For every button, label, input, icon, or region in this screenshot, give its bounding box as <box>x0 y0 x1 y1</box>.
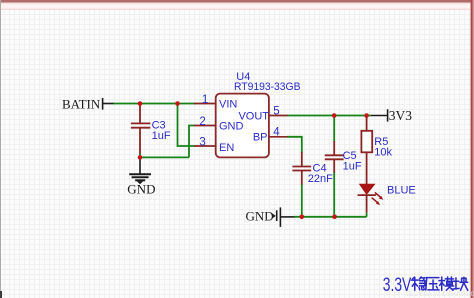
svg-text:VOUT: VOUT <box>238 110 269 122</box>
svg-text:EN: EN <box>219 142 234 154</box>
svg-text:BLUE: BLUE <box>387 185 416 197</box>
svg-text:3V3: 3V3 <box>389 108 412 123</box>
svg-text:2: 2 <box>199 116 205 128</box>
svg-text:3: 3 <box>199 136 205 148</box>
svg-text:5: 5 <box>273 105 279 117</box>
svg-text:1uF: 1uF <box>152 130 171 142</box>
svg-text:1uF: 1uF <box>343 161 362 173</box>
svg-text:RT9193-33GB: RT9193-33GB <box>234 81 301 93</box>
svg-text:BP: BP <box>253 131 268 143</box>
svg-text:GND: GND <box>246 209 274 224</box>
svg-text:GND: GND <box>127 182 155 197</box>
svg-text:1: 1 <box>202 94 208 106</box>
svg-text:4: 4 <box>273 126 280 138</box>
svg-text:22nF: 22nF <box>308 173 333 185</box>
svg-text:BATIN: BATIN <box>62 97 101 112</box>
svg-text:VIN: VIN <box>219 98 237 110</box>
svg-text:10k: 10k <box>374 146 392 158</box>
svg-text:JLC EDA V2.1.36 2023-09: JLC EDA V2.1.36 2023-09 <box>407 292 474 298</box>
